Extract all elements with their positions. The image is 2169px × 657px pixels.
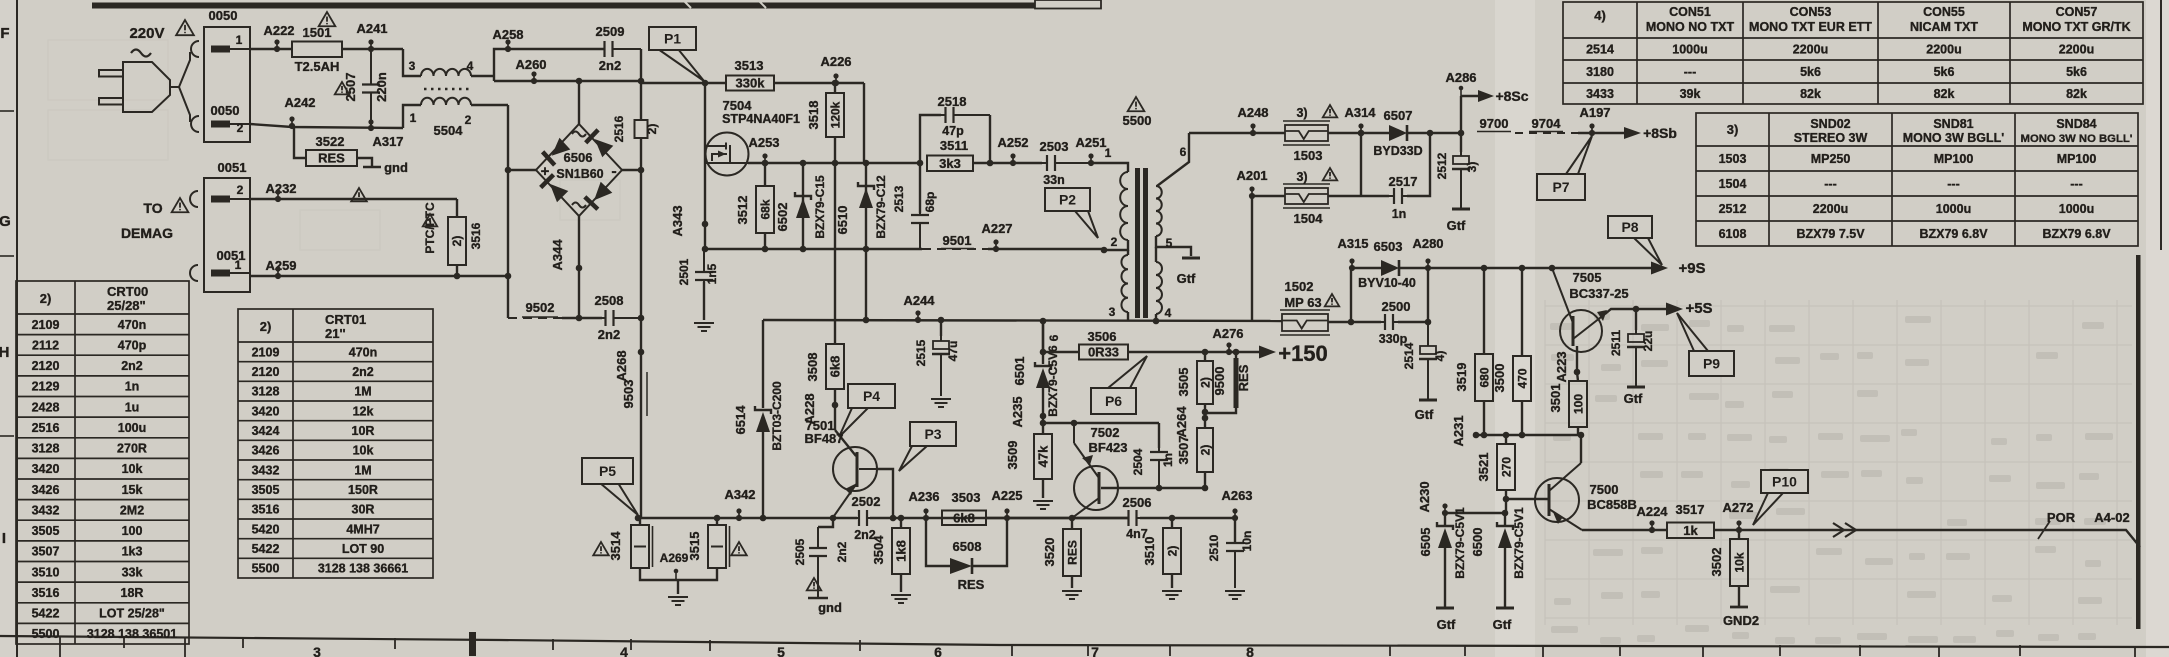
- svg-text:0R33: 0R33: [1088, 345, 1119, 360]
- resistor 3511 3k3: [927, 156, 973, 172]
- bridge diode lower-right: [585, 182, 613, 210]
- svg-text:P3: P3: [924, 426, 941, 442]
- svg-text:3: 3: [1109, 305, 1116, 319]
- svg-text:A226: A226: [820, 54, 851, 69]
- fusible 3514: [635, 515, 642, 522]
- svg-text:P4: P4: [863, 388, 880, 404]
- connector 0051 pin 1: [211, 270, 250, 277]
- svg-text:2n2: 2n2: [352, 365, 374, 379]
- svg-text:A259: A259: [265, 258, 296, 273]
- capacitor 2515 47u: [938, 317, 945, 324]
- zener 6505 BZX79-C5V1: [1444, 513, 1446, 526]
- callout P9: [1677, 313, 1734, 376]
- svg-text:470p: 470p: [118, 338, 147, 352]
- svg-text:6108: 6108: [1719, 227, 1747, 241]
- callout P4: [839, 384, 895, 437]
- svg-text:6: 6: [1180, 145, 1187, 159]
- earth ground 2515: [931, 399, 951, 407]
- svg-text:+5S: +5S: [1685, 300, 1712, 317]
- svg-text:CON53: CON53: [1790, 5, 1832, 19]
- wire 7500 collector: [1580, 435, 1582, 463]
- svg-text:5500: 5500: [1123, 113, 1152, 128]
- connector mating contact 0051-1: [190, 265, 198, 281]
- svg-text:A222: A222: [263, 23, 294, 38]
- svg-text:T2.5AH: T2.5AH: [295, 59, 340, 74]
- svg-text:A223: A223: [1554, 351, 1569, 382]
- wire 2516 to bridge minus: [640, 138, 642, 318]
- ground after 3522: [357, 158, 372, 167]
- link 9500 RES: [1233, 349, 1240, 356]
- line filter 5504 top winding: [403, 49, 421, 76]
- svg-text:BZT03-C200: BZT03-C200: [770, 381, 784, 451]
- chassis Gtf transformer: [1182, 257, 1200, 260]
- svg-text:A227: A227: [981, 221, 1012, 236]
- svg-text:P9: P9: [1703, 356, 1720, 372]
- svg-text:6506: 6506: [564, 150, 593, 165]
- svg-text:6514: 6514: [733, 405, 748, 435]
- svg-text:33k: 33k: [122, 565, 143, 579]
- svg-text:A231: A231: [1451, 415, 1466, 446]
- earth ground 2510: [1225, 591, 1245, 599]
- fuse 1502 MP63: [1280, 310, 1330, 335]
- svg-text:12k: 12k: [353, 404, 374, 418]
- svg-text:470: 470: [1516, 368, 1530, 388]
- wire 9502 solid: [562, 317, 602, 319]
- svg-text:2516: 2516: [612, 115, 626, 142]
- svg-text:3507: 3507: [1176, 436, 1191, 465]
- bottom frame rule: [0, 636, 2169, 647]
- svg-text:---: ---: [2070, 177, 2083, 191]
- resistor 3520 RES: [1069, 515, 1076, 522]
- warning triangle 2505: [807, 578, 821, 590]
- wire filter to bridge plus vertical x508: [507, 105, 509, 310]
- svg-text:6505: 6505: [1418, 528, 1433, 557]
- svg-text:3507: 3507: [32, 545, 60, 559]
- svg-text:3505: 3505: [1176, 368, 1191, 397]
- svg-text:2509: 2509: [596, 24, 625, 39]
- resistor 3509 47k: [1034, 434, 1052, 479]
- resistor 3517 1k: [1667, 523, 1714, 539]
- junction x1430: [1427, 130, 1434, 137]
- svg-text:STP4NA40F1: STP4NA40F1: [722, 112, 800, 126]
- warning triangle near PTC: [423, 214, 437, 226]
- svg-text:3500: 3500: [1492, 364, 1507, 393]
- transistor 7501 BF487: [833, 447, 877, 516]
- wire bridge plus stub: [508, 169, 536, 171]
- junction x641 y81: [638, 78, 645, 85]
- wire bridge bottom A344: [578, 216, 580, 318]
- wire x864 drop to drain line: [863, 83, 865, 163]
- earth ground 3509: [1033, 501, 1053, 509]
- right page border: [2136, 255, 2141, 629]
- svg-text:A343: A343: [670, 205, 685, 236]
- svg-text:3515: 3515: [687, 532, 702, 561]
- chassis Gtf 2512: [1452, 208, 1470, 211]
- svg-text:3503: 3503: [952, 490, 981, 505]
- svg-text:100: 100: [122, 524, 143, 538]
- svg-text:Gtf: Gtf: [1447, 218, 1466, 233]
- svg-text:CON51: CON51: [1669, 5, 1711, 19]
- frame border tick y256: [0, 255, 14, 257]
- wire 2500 to 2514: [1398, 321, 1428, 323]
- svg-text:7: 7: [1091, 644, 1099, 657]
- svg-text:7502: 7502: [1091, 425, 1120, 440]
- svg-text:2512: 2512: [1435, 152, 1449, 179]
- svg-text:3506: 3506: [1088, 329, 1117, 344]
- svg-text:9700: 9700: [1480, 116, 1509, 131]
- svg-text:220V: 220V: [129, 25, 164, 42]
- title block corner box: [1035, 0, 1101, 9]
- pin2 wire: [1106, 240, 1128, 250]
- wire 330k to A226: [774, 82, 864, 84]
- svg-text:F: F: [0, 25, 9, 42]
- wire A201 down to rail: [1251, 196, 1253, 322]
- svg-text:MP100: MP100: [2057, 152, 2097, 166]
- svg-text:3520: 3520: [1042, 538, 1057, 567]
- svg-text:BZX79 6.8V: BZX79 6.8V: [1919, 227, 1988, 241]
- svg-text:2n2: 2n2: [599, 58, 621, 73]
- svg-text:A272: A272: [1722, 500, 1753, 515]
- wire A280 riser: [1427, 268, 1429, 322]
- svg-text:5k6: 5k6: [2066, 65, 2087, 79]
- page frame left border: [16, 0, 18, 657]
- svg-text:1M: 1M: [354, 385, 371, 399]
- wire A201 line: [1252, 195, 1285, 197]
- mosfet 7504 STP4NA40F1: [705, 133, 749, 176]
- right border upper line: [2160, 0, 2162, 250]
- svg-text:150R: 150R: [348, 483, 378, 497]
- svg-text:2200u: 2200u: [1793, 43, 1828, 57]
- frame border tick y436: [0, 435, 14, 437]
- svg-text:3426: 3426: [32, 483, 60, 497]
- transistor 7505 BC337-25: [1549, 265, 1556, 272]
- svg-text:MONO 3W BGLL': MONO 3W BGLL': [1903, 131, 2005, 145]
- svg-text:3516: 3516: [252, 503, 280, 517]
- svg-text:3512: 3512: [735, 196, 750, 225]
- wire gate vertical: [704, 83, 706, 249]
- capacitor 2512 3): [1452, 152, 1470, 209]
- transistor 7502 BF423: [1072, 423, 1118, 518]
- resistor 3501 100: [1569, 381, 1587, 427]
- resistor 3505 2): [1202, 349, 1209, 356]
- earth ground 3504: [891, 595, 911, 603]
- junction x641 y318: [638, 315, 645, 322]
- svg-text:6500: 6500: [1470, 528, 1485, 557]
- svg-text:BZX79 7.5V: BZX79 7.5V: [1796, 227, 1865, 241]
- svg-text:MP 63: MP 63: [1284, 295, 1321, 310]
- svg-text:1k8: 1k8: [894, 540, 909, 562]
- svg-text:3128 138 36501: 3128 138 36501: [87, 627, 177, 641]
- svg-text:2511: 2511: [1609, 330, 1623, 356]
- test point A228: [834, 389, 836, 430]
- svg-text:2510: 2510: [1207, 534, 1221, 561]
- junction PTC bottom: [454, 273, 461, 280]
- svg-text:6502: 6502: [775, 203, 790, 232]
- svg-text:33n: 33n: [1043, 173, 1065, 187]
- svg-text:P7: P7: [1552, 179, 1569, 195]
- svg-text:A315: A315: [1337, 236, 1368, 251]
- svg-text:3514: 3514: [608, 531, 623, 561]
- arrow +5S: [1666, 303, 1683, 316]
- svg-text:4: 4: [1165, 306, 1172, 320]
- test point A264: [1202, 409, 1209, 416]
- connector 0050 body: [204, 27, 250, 142]
- svg-text:5504: 5504: [434, 123, 464, 138]
- warning triangle near 2507: [335, 82, 349, 94]
- svg-text:3518: 3518: [806, 101, 821, 130]
- svg-text:2109: 2109: [252, 345, 280, 359]
- svg-text:gnd: gnd: [818, 600, 842, 615]
- gnd bar 2505: [808, 597, 828, 600]
- zener 6514 BZT03-C200: [762, 320, 764, 408]
- svg-text:5500: 5500: [252, 562, 280, 576]
- wires 3514 3515 to ground: [640, 568, 717, 580]
- svg-text:6507: 6507: [1384, 108, 1413, 123]
- line filter 5504 core dots: [424, 88, 470, 91]
- svg-text:2n2: 2n2: [121, 359, 143, 373]
- svg-text:RES: RES: [958, 577, 985, 592]
- wire 1504 to 2517: [1328, 195, 1389, 197]
- svg-text:3513: 3513: [735, 58, 764, 73]
- capacitor 2503 33n: [1042, 155, 1091, 171]
- svg-text:A251: A251: [1075, 135, 1106, 150]
- wire rail crossing x835: [834, 249, 836, 320]
- junction x508 A259 line: [505, 273, 512, 280]
- resistor 3513 330k: [726, 76, 774, 91]
- POR line break slash: [2038, 521, 2050, 539]
- svg-text:5: 5: [777, 644, 785, 657]
- connector 0051 pin 2: [211, 196, 250, 203]
- arrow +8Sb: [1624, 127, 1641, 139]
- capacitor 2510 10n: [1234, 518, 1236, 542]
- svg-text:10R: 10R: [352, 424, 375, 438]
- svg-text:2): 2): [450, 236, 464, 247]
- svg-text:RES: RES: [1236, 364, 1251, 391]
- svg-text:A248: A248: [1237, 105, 1268, 120]
- arrow +9S: [1651, 262, 1668, 275]
- connector mating contact 0051-2: [190, 191, 198, 207]
- callout P10: [1753, 470, 1808, 525]
- svg-text:270: 270: [1500, 457, 1514, 477]
- bottom right frame cells: [60, 636, 2135, 657]
- svg-text:NICAM TXT: NICAM TXT: [1910, 20, 1978, 34]
- table SND02-84 options: [1696, 113, 2138, 246]
- arrow +8Sc: [1461, 95, 1478, 97]
- svg-text:3517: 3517: [1676, 502, 1705, 517]
- wire 6507 to A286: [1407, 132, 1459, 134]
- svg-text:3: 3: [313, 644, 321, 657]
- junction collector x893: [890, 515, 897, 522]
- svg-text:25/28": 25/28": [107, 298, 146, 313]
- svg-text:2: 2: [1111, 235, 1118, 249]
- bottom frame ticks: [124, 637, 2020, 656]
- svg-text:2200u: 2200u: [1926, 43, 1961, 57]
- svg-text:3505: 3505: [252, 483, 280, 497]
- svg-text:LOT 25/28": LOT 25/28": [99, 607, 165, 621]
- svg-text:3522: 3522: [316, 134, 345, 149]
- capacitor 2506 4n7: [1128, 510, 1140, 526]
- svg-text:0051: 0051: [217, 248, 246, 263]
- svg-text:A280: A280: [1412, 236, 1443, 251]
- capacitor 2509 2n2: [604, 41, 641, 57]
- resistor 3510 2): [1169, 515, 1176, 522]
- primary winding pin2-3: [1121, 255, 1128, 312]
- svg-text:3504: 3504: [871, 535, 886, 565]
- junction x641 y170: [638, 167, 645, 174]
- svg-text:2): 2): [40, 291, 52, 306]
- svg-text:BC858B: BC858B: [1587, 497, 1637, 512]
- earth ground 3520: [1062, 591, 1082, 599]
- wire 8S line y268: [1351, 267, 1381, 269]
- warning triangle above fuse: [319, 12, 336, 26]
- table CON51-57 options: [1563, 2, 2143, 104]
- warning triangle 5500: [1128, 97, 1145, 111]
- svg-text:5: 5: [1166, 236, 1173, 250]
- svg-text:MONO NO TXT: MONO NO TXT: [1646, 20, 1735, 34]
- warning triangle 1502: [1325, 294, 1339, 306]
- arrow +150: [1259, 346, 1276, 359]
- svg-text:BF487: BF487: [804, 431, 843, 446]
- svg-text:10k: 10k: [1733, 552, 1747, 572]
- ac tilde symbol: [131, 50, 151, 57]
- connector mating contact 0050-2: [191, 116, 199, 132]
- svg-text:6508: 6508: [953, 539, 982, 554]
- svg-text:1: 1: [410, 111, 417, 125]
- capacitor 2511 22u: [1633, 306, 1640, 313]
- svg-text:Gtf: Gtf: [1415, 407, 1434, 422]
- svg-text:A252: A252: [997, 135, 1028, 150]
- pin5 wire to Gtf: [1156, 236, 1191, 256]
- svg-text:2): 2): [1199, 445, 1213, 456]
- callout P1: [649, 27, 704, 81]
- svg-text:3505: 3505: [32, 524, 60, 538]
- svg-text:2200u: 2200u: [1813, 202, 1848, 216]
- capacitor 2502 2n2: [852, 510, 870, 526]
- warning triangle near TO: [172, 198, 189, 212]
- svg-text:2517: 2517: [1389, 174, 1418, 189]
- svg-text:2514: 2514: [1586, 43, 1614, 57]
- wire y518 to A236: [870, 517, 1129, 519]
- svg-text:G: G: [0, 213, 11, 230]
- test point A223: [1574, 369, 1581, 376]
- svg-text:68p: 68p: [923, 192, 937, 213]
- svg-text:1n5: 1n5: [705, 263, 719, 284]
- svg-text:BZX79-C5V6: BZX79-C5V6: [1046, 345, 1060, 417]
- svg-text:1504: 1504: [1719, 177, 1747, 191]
- chassis Gtf 2511: [1627, 386, 1645, 389]
- svg-text:GND2: GND2: [1723, 613, 1759, 628]
- wire right vertical drop x641: [640, 49, 642, 120]
- junction 6514 bottom: [760, 515, 767, 522]
- svg-text:3128 138 36661: 3128 138 36661: [318, 562, 408, 576]
- svg-text:3180: 3180: [1586, 65, 1614, 79]
- svg-text:0051: 0051: [218, 160, 247, 175]
- bottom frame thick tick: [469, 632, 476, 656]
- transistor 7500 BC858B: [1535, 463, 1582, 530]
- svg-text:A4-02: A4-02: [2094, 510, 2129, 525]
- svg-text:3433: 3433: [1586, 87, 1614, 101]
- svg-text:BZX79-C12: BZX79-C12: [874, 175, 888, 239]
- hot rail y320: [763, 320, 1282, 321]
- svg-text:1n: 1n: [1161, 453, 1175, 467]
- net 9502 dashed: [507, 310, 509, 318]
- capacitor 2517 1n: [1389, 188, 1407, 204]
- earth ground below 2501: [694, 323, 714, 331]
- junction A344 bottom: [576, 315, 583, 322]
- svg-text:A342: A342: [724, 487, 755, 502]
- svg-text:270R: 270R: [117, 442, 147, 456]
- fuse 1503: [1283, 121, 1330, 145]
- resistor 3512 68k: [764, 163, 766, 186]
- capacitor 2501 1n5: [695, 249, 713, 282]
- svg-text:1000u: 1000u: [1672, 43, 1707, 57]
- svg-text:100u: 100u: [118, 421, 147, 435]
- svg-text:470n: 470n: [118, 318, 147, 332]
- table CRT00 25/28in: [16, 281, 189, 644]
- svg-text:+8Sc: +8Sc: [1495, 88, 1528, 104]
- svg-text:BZX79-C15: BZX79-C15: [813, 175, 827, 239]
- svg-text:6: 6: [1047, 334, 1061, 341]
- svg-text:9502: 9502: [526, 300, 555, 315]
- capacitor 2513 68p: [919, 163, 921, 213]
- svg-text:A225: A225: [991, 488, 1022, 503]
- svg-text:A224: A224: [1636, 504, 1668, 519]
- svg-text:2: 2: [237, 183, 244, 197]
- bridge rectifier 6506 SN1B60: [536, 124, 622, 216]
- chassis Gtf 6505: [1436, 607, 1454, 610]
- junction x508 y170: [505, 167, 512, 174]
- svg-text:2500: 2500: [1382, 299, 1411, 314]
- resistor 3518 120k: [834, 83, 836, 93]
- svg-text:3508: 3508: [805, 353, 820, 382]
- svg-text:3420: 3420: [252, 404, 280, 418]
- wire base feed into 7501: [835, 430, 856, 456]
- svg-text:P8: P8: [1621, 219, 1638, 235]
- connector 0050 pin 1: [211, 46, 250, 53]
- connector 0050 pin 2: [211, 121, 250, 128]
- warning triangle right of 3515: [731, 542, 747, 555]
- resistor 3521 270: [1503, 432, 1510, 439]
- capacitor 2505 2n2 gnd: [818, 518, 833, 527]
- svg-text:100: 100: [1572, 394, 1586, 414]
- svg-text:3511: 3511: [940, 138, 968, 153]
- svg-text:+150: +150: [1278, 341, 1328, 366]
- svg-text:1n: 1n: [1392, 207, 1407, 221]
- svg-text:5422: 5422: [32, 607, 60, 621]
- svg-text:1000u: 1000u: [2059, 202, 2094, 216]
- svg-text:SND81: SND81: [1933, 117, 1973, 131]
- diode 6503 BYV10-40: [1381, 260, 1399, 276]
- svg-text:A236: A236: [908, 489, 939, 504]
- chevrons on POR line: [1833, 523, 1856, 537]
- title block top bar: [92, 3, 1035, 9]
- diode 6507 BYD33D: [1389, 125, 1407, 141]
- wire bridge right to x641: [622, 169, 641, 171]
- callout P8: [1608, 216, 1662, 265]
- warning triangle above 1504: [1323, 168, 1337, 180]
- svg-text:2508: 2508: [595, 293, 624, 308]
- svg-text:2504: 2504: [1131, 448, 1145, 475]
- wire 7500 base: [1506, 498, 1549, 500]
- svg-text:SND84: SND84: [2056, 117, 2096, 131]
- svg-text:RES: RES: [318, 151, 345, 166]
- fuse 1504: [1283, 184, 1330, 208]
- wire A260 line: [494, 80, 641, 82]
- svg-text:6k8: 6k8: [828, 356, 843, 378]
- wire 6503 to +9S: [1399, 267, 1651, 269]
- svg-text:BZX79 6.8V: BZX79 6.8V: [2042, 227, 2111, 241]
- svg-text:5420: 5420: [252, 522, 280, 536]
